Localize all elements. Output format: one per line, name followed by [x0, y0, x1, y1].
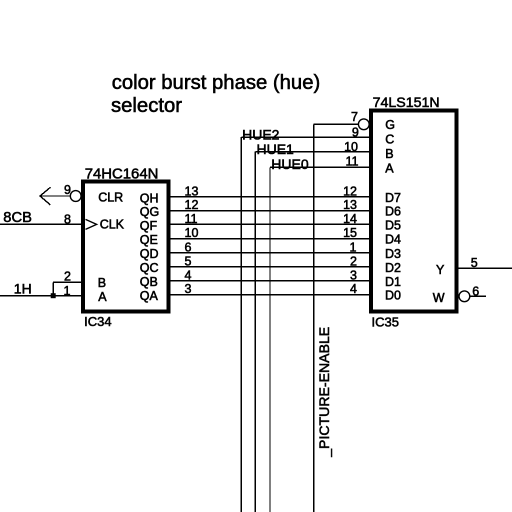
wire bus QA-D0 — [169, 294, 370, 296]
svg-text:8: 8 — [64, 212, 71, 226]
svg-text:1: 1 — [350, 240, 357, 254]
wire bus QB-D1 — [169, 280, 370, 282]
svg-text:4: 4 — [185, 268, 192, 282]
svg-text:D6: D6 — [385, 205, 401, 219]
svg-text:6: 6 — [472, 284, 479, 298]
svg-text:6: 6 — [185, 240, 192, 254]
svg-text:Y: Y — [436, 263, 445, 277]
svg-text:color burst phase (hue): color burst phase (hue) — [112, 72, 321, 94]
wire net HUE2 to pin 9 C — [241, 136, 370, 138]
svg-text:G: G — [385, 118, 395, 132]
wire pin 2 B — [53, 281, 82, 283]
svg-text:B: B — [385, 147, 393, 161]
wire CLK net 8CB — [0, 223, 82, 225]
svg-text:11: 11 — [185, 212, 198, 226]
svg-text:QF: QF — [140, 219, 158, 233]
svg-text:D3: D3 — [385, 247, 401, 261]
svg-text:11: 11 — [346, 155, 359, 169]
wire bus QF-D5 — [169, 223, 370, 225]
svg-text:12: 12 — [185, 198, 199, 212]
wire junction riser 1H to B — [52, 282, 54, 295]
svg-text:C: C — [385, 132, 394, 146]
wire bus QH-D7 — [169, 196, 370, 198]
svg-text:D7: D7 — [385, 191, 401, 205]
wire net 1H pin 1 A — [0, 295, 82, 297]
svg-text:_PICTURE-ENABLE: _PICTURE-ENABLE — [316, 327, 332, 458]
svg-text:1H: 1H — [14, 281, 32, 297]
svg-text:10: 10 — [185, 226, 199, 240]
svg-text:selector: selector — [111, 95, 182, 117]
wire net HUE0 to pin 11 A — [270, 166, 370, 168]
svg-text:13: 13 — [185, 184, 199, 198]
junction node 1H/B — [51, 293, 56, 298]
svg-text:A: A — [385, 162, 394, 176]
svg-text:D1: D1 — [385, 275, 401, 289]
svg-text:7: 7 — [351, 110, 358, 124]
wire HUE1 vertical — [254, 152, 256, 512]
IC35 box 74LS151N — [371, 110, 457, 311]
wire HUE0 vertical — [269, 167, 271, 512]
svg-text:1: 1 — [64, 284, 71, 298]
svg-text:9: 9 — [64, 183, 71, 197]
svg-text:CLK: CLK — [100, 218, 125, 232]
wire _PICTURE-ENABLE vertical — [313, 124, 315, 512]
svg-text:3: 3 — [185, 282, 192, 296]
wire output W pin 6 — [470, 295, 486, 297]
svg-text:QG: QG — [140, 205, 159, 219]
wire net HUE1 to pin 10 B — [255, 151, 370, 153]
svg-text:HUE0: HUE0 — [271, 156, 309, 172]
wire CLR pin 9 — [40, 195, 71, 197]
svg-text:2: 2 — [350, 254, 357, 268]
clock triangle CLK — [86, 219, 97, 229]
svg-text:9: 9 — [352, 126, 359, 140]
svg-text:IC35: IC35 — [372, 314, 399, 329]
wire HUE2 vertical — [240, 137, 242, 512]
svg-text:HUE1: HUE1 — [257, 141, 295, 157]
svg-text:A: A — [98, 290, 107, 304]
svg-text:5: 5 — [185, 254, 192, 268]
svg-text:IC34: IC34 — [84, 314, 111, 329]
svg-text:B: B — [98, 276, 106, 290]
wire bus QC-D2 — [169, 266, 370, 268]
inversion bubble CLR pin 9 — [70, 191, 81, 202]
IC34 box 74HC164N — [83, 181, 169, 311]
svg-text:D4: D4 — [385, 233, 401, 247]
svg-text:14: 14 — [343, 212, 357, 226]
svg-text:QD: QD — [140, 247, 159, 261]
svg-text:74LS151N: 74LS151N — [373, 95, 440, 111]
svg-text:HUE2: HUE2 — [242, 126, 280, 142]
svg-text:W: W — [433, 291, 445, 305]
svg-text:5: 5 — [471, 256, 478, 270]
svg-text:QA: QA — [140, 289, 159, 303]
svg-text:74HC164N: 74HC164N — [85, 167, 159, 183]
svg-text:QC: QC — [140, 261, 159, 275]
wire bus QG-D6 — [169, 210, 370, 212]
inversion bubble W pin 6 — [459, 291, 470, 302]
svg-text:QB: QB — [140, 275, 158, 289]
svg-text:D0: D0 — [385, 289, 401, 303]
wire bus QE-D4 — [169, 238, 370, 240]
svg-text:13: 13 — [343, 198, 357, 212]
svg-text:CLR: CLR — [98, 191, 123, 205]
svg-text:10: 10 — [344, 140, 358, 154]
svg-text:D5: D5 — [385, 218, 401, 232]
svg-text:D2: D2 — [385, 261, 401, 275]
svg-text:8CB: 8CB — [3, 210, 32, 226]
arrow off-page CLR — [40, 187, 50, 205]
svg-text:12: 12 — [343, 184, 357, 198]
wire net _PICTURE-ENABLE to pin 7 G — [314, 123, 359, 125]
svg-text:15: 15 — [343, 226, 357, 240]
svg-text:QE: QE — [140, 233, 158, 247]
svg-text:4: 4 — [350, 282, 357, 296]
svg-text:3: 3 — [350, 268, 357, 282]
svg-text:2: 2 — [64, 269, 71, 283]
wire bus QD-D3 — [169, 252, 370, 254]
svg-text:QH: QH — [140, 191, 159, 205]
inversion bubble G pin 7 — [358, 119, 369, 130]
wire output Y pin 5 — [459, 267, 512, 269]
